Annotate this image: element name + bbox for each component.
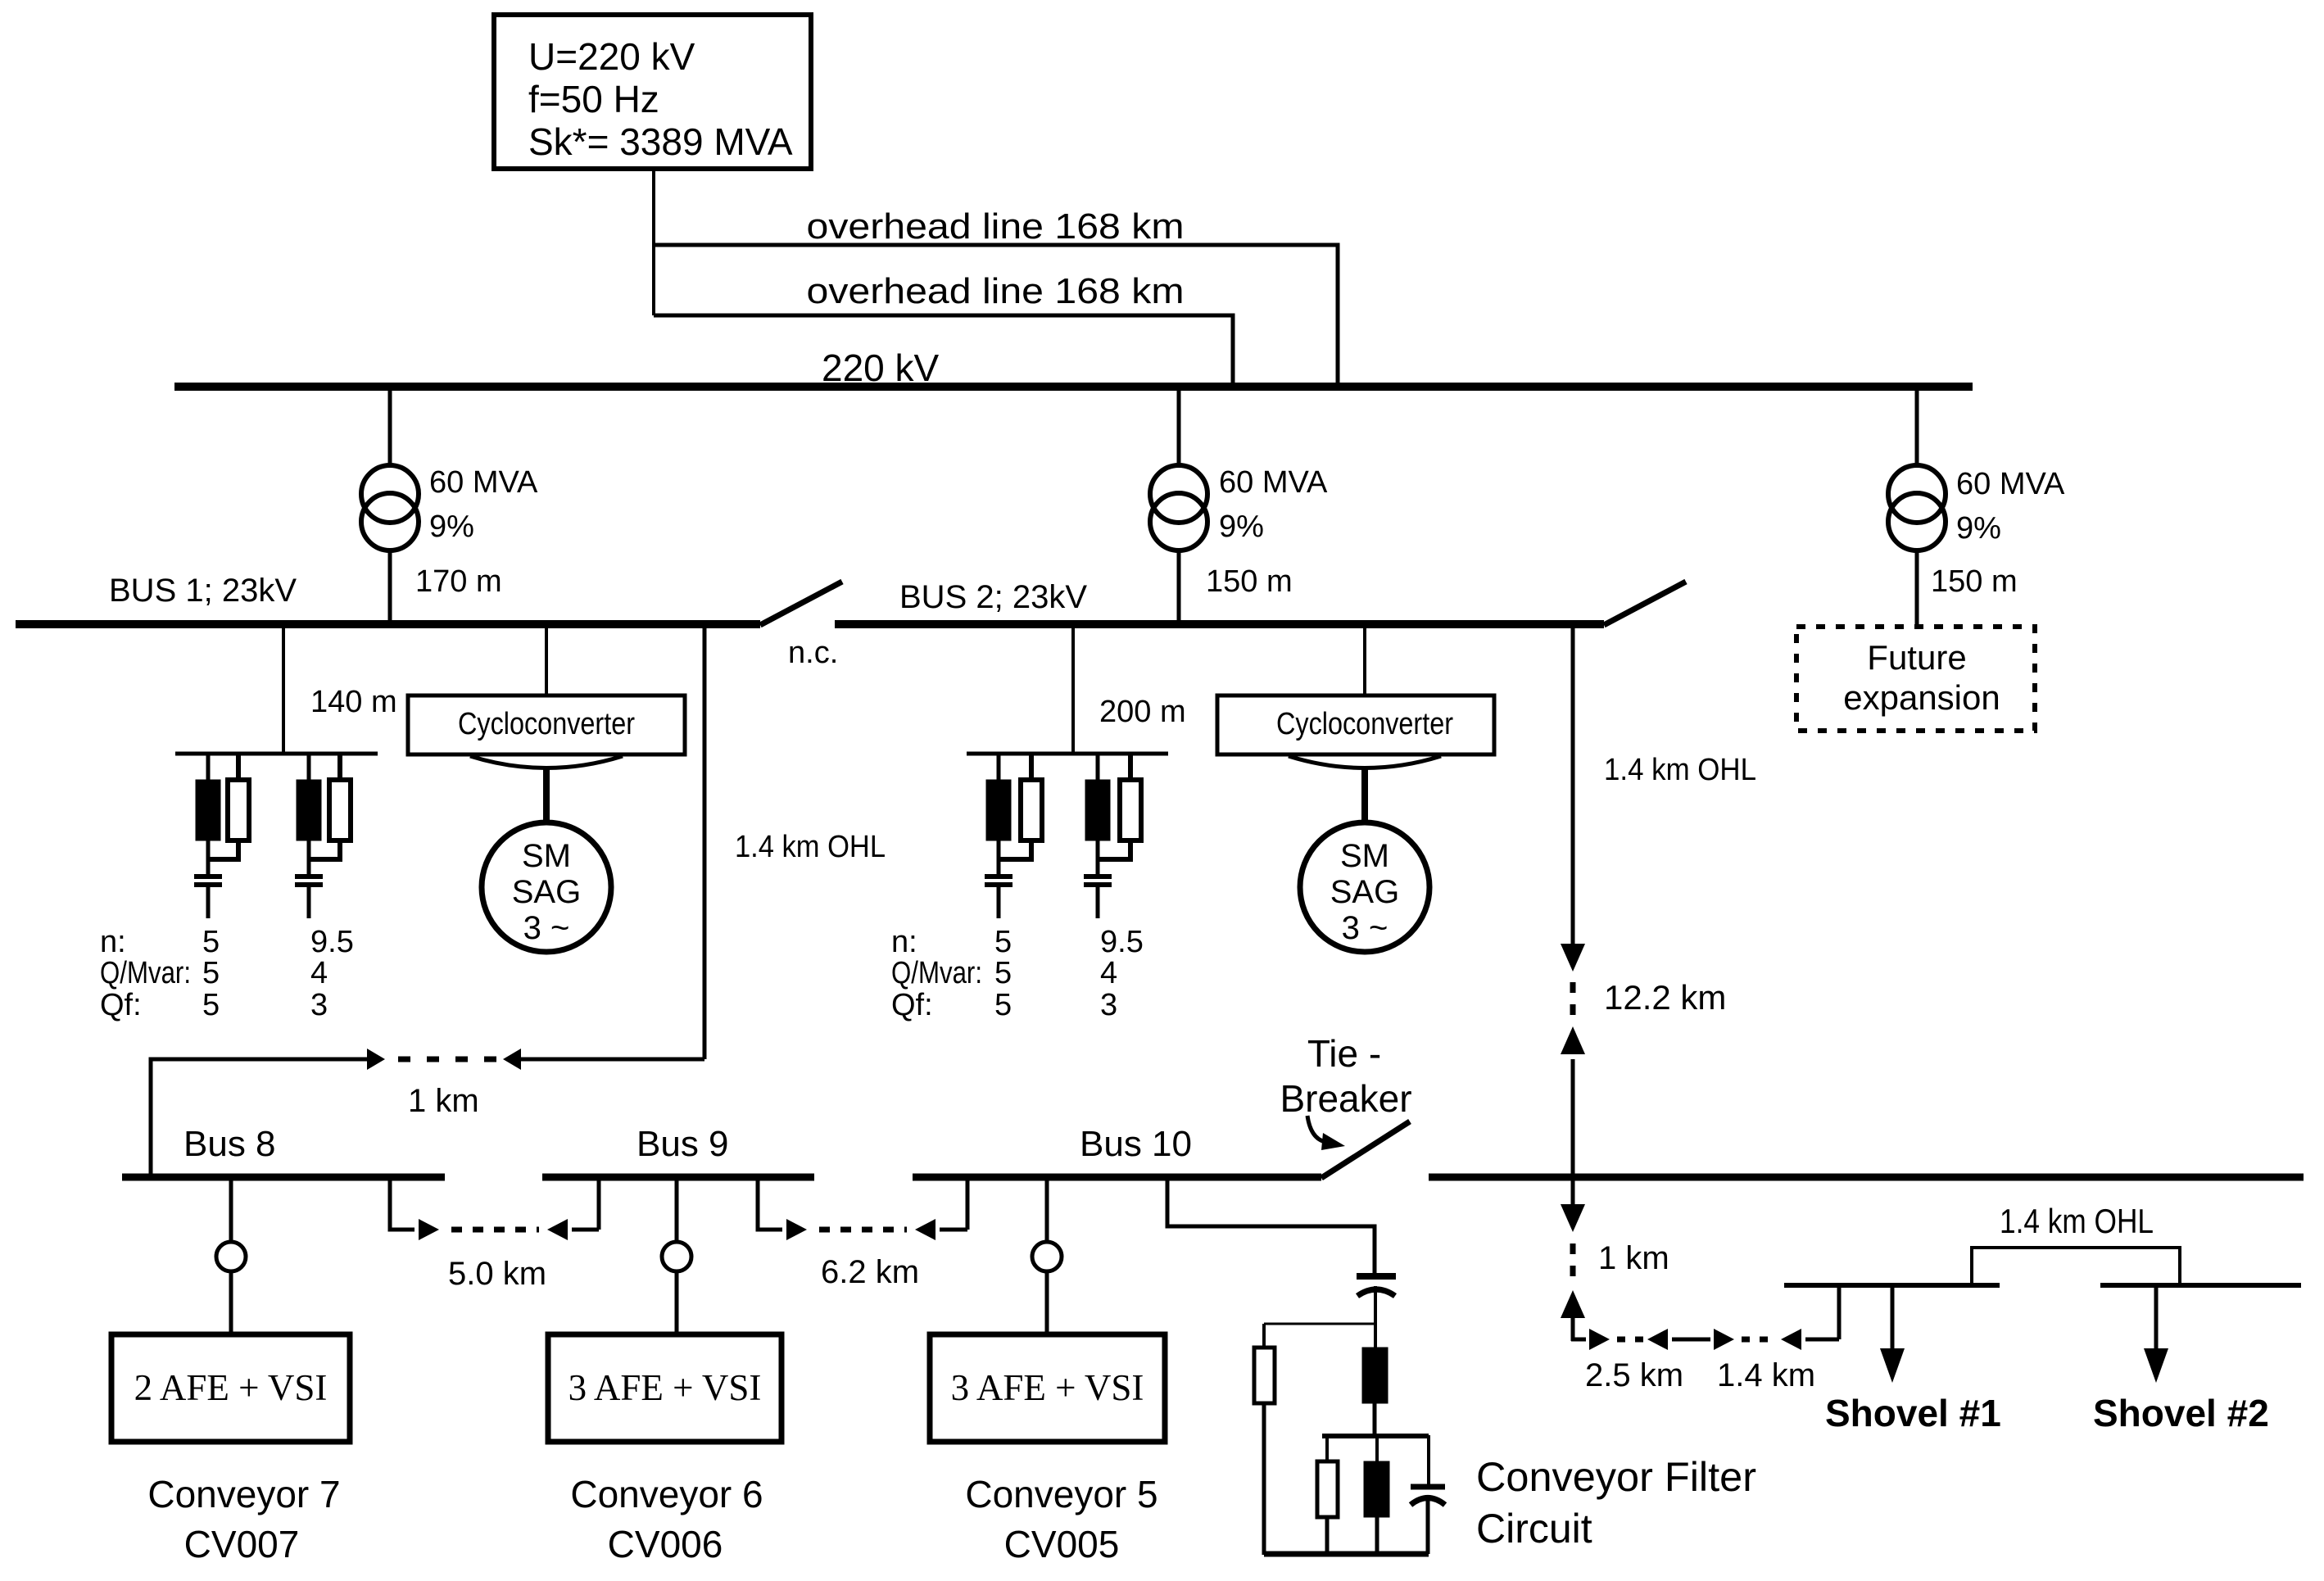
filter bank 2 branch A (L parallel R, C)	[997, 754, 1001, 780]
filter bank 1 branch A (L parallel R, C)	[206, 754, 211, 780]
svg-text:170 m: 170 m	[415, 564, 502, 599]
svg-text:1 km: 1 km	[408, 1083, 479, 1119]
resistor R2	[1325, 1435, 1329, 1461]
220 kV main bus	[174, 383, 1973, 391]
svg-text:9.5: 9.5	[310, 925, 354, 959]
svg-text:3: 3	[310, 988, 328, 1022]
transformer T2 60 MVA	[1177, 387, 1181, 467]
wire T3 to future box	[1915, 621, 1919, 627]
svg-text:CV006: CV006	[608, 1523, 723, 1565]
svg-text:2 AFE + VSI: 2 AFE + VSI	[134, 1367, 328, 1408]
svg-text:Shovel #1: Shovel #1	[1825, 1392, 2001, 1434]
1.4 km OHL feeder from BUS 2	[1571, 624, 1575, 945]
svg-text:2.5 km: 2.5 km	[1585, 1357, 1683, 1393]
2.5 km / 1.4 km trailing cable chain	[1571, 1338, 1586, 1342]
svg-text:5: 5	[202, 988, 220, 1022]
series capacitor C1	[1357, 1273, 1396, 1280]
shovel bus segment 1	[1784, 1283, 2000, 1288]
overhead line 1	[654, 245, 1338, 385]
svg-text:Conveyor 5: Conveyor 5	[965, 1473, 1157, 1515]
svg-text:Bus 9: Bus 9	[636, 1124, 729, 1164]
svg-text:BUS 1; 23kV: BUS 1; 23kV	[109, 573, 297, 609]
1 km feeder below mine bus	[1571, 1180, 1575, 1210]
feeder BUS1 to filter bank 1	[282, 624, 285, 754]
1.4 km OHL bridge	[1972, 1248, 2180, 1285]
transformer T1 60 MVA	[388, 387, 392, 467]
svg-text:SM: SM	[522, 838, 571, 874]
svg-text:Conveyor 6: Conveyor 6	[570, 1473, 763, 1515]
6.2 km link Bus9-Bus10	[758, 1180, 782, 1230]
Bus 9 bus bar	[542, 1174, 814, 1181]
svg-text:5: 5	[202, 925, 220, 959]
wire from source box	[652, 169, 655, 315]
svg-text:U=220 kV: U=220 kV	[528, 35, 695, 78]
filter bank 2 header	[967, 752, 1168, 756]
mine distribution bus (right)	[1429, 1174, 2304, 1181]
1 km tie line to Bus 8	[151, 1059, 368, 1177]
svg-text:Qf:: Qf:	[100, 988, 142, 1022]
filter bottom rail	[1264, 1552, 1429, 1557]
svg-text:expansion: expansion	[1843, 678, 2000, 717]
svg-text:SAG: SAG	[512, 874, 581, 910]
svg-text:150 m: 150 m	[1931, 564, 2018, 599]
svg-text:9%: 9%	[1219, 510, 1264, 544]
svg-text:n:: n:	[100, 925, 126, 959]
conveyor filter circuit feed from Bus 10	[1167, 1180, 1375, 1278]
svg-text:f=50 Hz: f=50 Hz	[528, 78, 659, 120]
tie-breaker pointer arrow	[1307, 1116, 1325, 1142]
conveyor 6 drive: breaker + 3 AFE + VSI box	[675, 1180, 679, 1242]
svg-text:overhead line 168 km: overhead line 168 km	[807, 206, 1185, 247]
conveyor 5 drive: breaker + 3 AFE + VSI box	[1045, 1180, 1049, 1242]
svg-text:Bus 10: Bus 10	[1080, 1124, 1192, 1164]
second stage header	[1322, 1434, 1429, 1438]
capacitor C2	[1427, 1435, 1430, 1484]
svg-text:140 m: 140 m	[310, 685, 397, 719]
Bus 10 bus bar	[913, 1174, 1321, 1181]
bus coupler switch (open) n.c.	[760, 582, 842, 625]
svg-text:Q/Mvar:: Q/Mvar:	[100, 956, 191, 990]
svg-text:Circuit: Circuit	[1476, 1506, 1592, 1552]
svg-text:Cycloconverter: Cycloconverter	[1276, 707, 1453, 741]
svg-text:Future: Future	[1867, 638, 1966, 677]
svg-text:Cycloconverter: Cycloconverter	[458, 707, 635, 741]
damping resistor R1	[1254, 1348, 1275, 1403]
svg-text:Conveyor 7: Conveyor 7	[147, 1473, 340, 1515]
svg-text:Shovel #2: Shovel #2	[2093, 1392, 2269, 1434]
svg-text:3 AFE + VSI: 3 AFE + VSI	[569, 1367, 762, 1408]
svg-text:9%: 9%	[1956, 511, 2001, 546]
svg-text:Bus 8: Bus 8	[183, 1124, 276, 1164]
filter inductor L1	[1362, 1348, 1388, 1403]
feeder BUS1 1.4 km OHL down-line	[703, 624, 707, 1059]
svg-text:n.c.: n.c.	[788, 636, 838, 670]
tie-breaker blade (open)	[1321, 1121, 1410, 1178]
filter bank 1 branch B (L parallel R, C)	[307, 754, 311, 780]
svg-text:4: 4	[310, 956, 328, 990]
svg-text:1.4 km OHL: 1.4 km OHL	[1604, 753, 1756, 787]
cycloconverter 1 with SM SAG motor	[545, 624, 548, 695]
svg-text:CV005: CV005	[1004, 1523, 1120, 1565]
svg-text:CV007: CV007	[184, 1523, 300, 1565]
filter bank 1 header	[175, 752, 378, 756]
inductor L2	[1375, 1435, 1379, 1461]
svg-text:BUS 2; 23kV: BUS 2; 23kV	[899, 579, 1087, 615]
svg-text:60 MVA: 60 MVA	[429, 465, 538, 500]
conveyor 7 drive: breaker + 2 AFE + VSI box	[229, 1180, 233, 1242]
svg-text:overhead line 168 km: overhead line 168 km	[807, 271, 1185, 311]
svg-text:Sk*= 3389 MVA: Sk*= 3389 MVA	[528, 120, 793, 163]
svg-text:60 MVA: 60 MVA	[1219, 465, 1328, 500]
overhead line 2	[654, 315, 1233, 385]
svg-text:n:: n:	[891, 925, 917, 959]
svg-text:Breaker: Breaker	[1280, 1077, 1411, 1120]
svg-text:9%: 9%	[429, 510, 474, 544]
BUS 1 bus bar	[16, 620, 760, 628]
filter bank 2 branch B (L parallel R, C)	[1096, 754, 1100, 780]
Bus 8 bus bar	[122, 1174, 445, 1181]
svg-text:Conveyor Filter: Conveyor Filter	[1476, 1454, 1756, 1500]
svg-text:12.2 km: 12.2 km	[1604, 978, 1726, 1017]
svg-text:3 ~: 3 ~	[1342, 910, 1389, 946]
svg-text:5: 5	[202, 956, 220, 990]
svg-text:6.2 km: 6.2 km	[821, 1254, 919, 1290]
svg-text:Tie -: Tie -	[1307, 1032, 1381, 1075]
switch at BUS 2 right end (open)	[1604, 582, 1686, 625]
svg-text:1.4 km OHL: 1.4 km OHL	[2000, 1202, 2154, 1240]
svg-text:SAG: SAG	[1330, 874, 1399, 910]
feeder BUS2 to filter bank 2	[1071, 624, 1075, 754]
shovel #1 drop arrow	[1891, 1288, 1895, 1352]
svg-text:5: 5	[994, 956, 1012, 990]
svg-text:60 MVA: 60 MVA	[1956, 467, 2065, 501]
svg-text:5.0 km: 5.0 km	[448, 1256, 546, 1292]
svg-text:1 km: 1 km	[1598, 1240, 1669, 1276]
svg-text:3 AFE + VSI: 3 AFE + VSI	[951, 1367, 1144, 1408]
shovel #2 drop arrow	[2154, 1288, 2159, 1352]
svg-text:Q/Mvar:: Q/Mvar:	[891, 956, 982, 990]
source box (utility equivalent)	[494, 15, 811, 169]
svg-text:4: 4	[1100, 956, 1117, 990]
svg-text:5: 5	[994, 988, 1012, 1022]
svg-text:SM: SM	[1340, 838, 1389, 874]
junction to damping resistor branch	[1264, 1323, 1375, 1325]
BUS 2 bus bar	[835, 620, 1604, 628]
svg-text:9.5: 9.5	[1100, 925, 1144, 959]
svg-text:Qf:: Qf:	[891, 988, 933, 1022]
svg-text:3: 3	[1100, 988, 1117, 1022]
svg-text:1.4 km OHL: 1.4 km OHL	[735, 830, 886, 864]
transformer T3 60 MVA	[1915, 387, 1919, 467]
shovel bus segment 2	[2100, 1283, 2301, 1288]
svg-text:5: 5	[994, 925, 1012, 959]
svg-text:1.4 km: 1.4 km	[1717, 1357, 1815, 1393]
svg-text:3 ~: 3 ~	[523, 910, 570, 946]
future expansion dashed box	[1796, 627, 2035, 731]
svg-text:200 m: 200 m	[1099, 695, 1186, 729]
cycloconverter 2 with SM SAG motor	[1363, 624, 1366, 695]
svg-text:150 m: 150 m	[1206, 564, 1293, 599]
5.0 km link Bus8-Bus9	[390, 1180, 415, 1230]
